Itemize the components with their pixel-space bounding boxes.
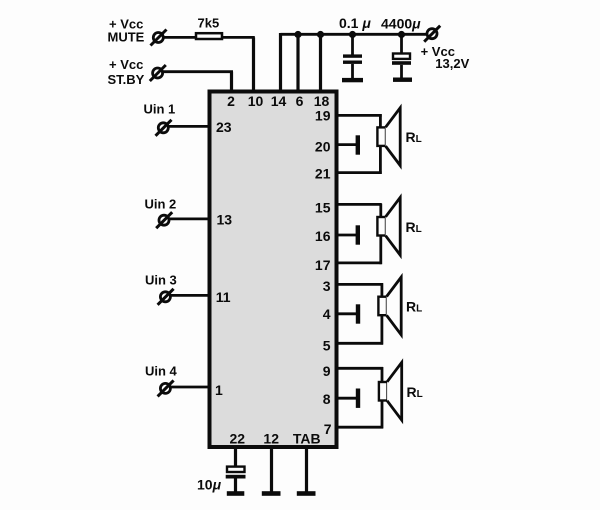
- svg-text:12: 12: [263, 430, 279, 446]
- node +Vcc ST.BY label: [108, 57, 145, 87]
- svg-text:23: 23: [216, 119, 232, 135]
- wire speaker bracket 4: [381, 367, 384, 429]
- wire pin 9: [335, 367, 383, 370]
- wire pin 20 stub: [335, 143, 356, 146]
- wire speaker bracket 2: [379, 204, 382, 265]
- svg-text:TAB: TAB: [293, 430, 321, 446]
- terminal Uin 1: [156, 120, 172, 136]
- wire ST.BY terminal to pin 2: [162, 72, 233, 92]
- svg-text:17: 17: [315, 257, 331, 273]
- svg-text:7: 7: [324, 421, 332, 437]
- speaker LS2: [377, 197, 400, 255]
- svg-text:3: 3: [323, 278, 331, 294]
- terminal bar pin 16: [356, 225, 360, 244]
- wire Uin 2 to pin 13: [169, 217, 210, 220]
- node +Vcc 13,2V label: [421, 44, 470, 71]
- wire pin 22 down: [234, 447, 237, 466]
- svg-text:Uin 4: Uin 4: [145, 363, 178, 378]
- junction dot C1: [349, 31, 356, 38]
- ground C2: [393, 78, 412, 82]
- svg-text:0.1 μ: 0.1 μ: [339, 15, 371, 31]
- terminal Uin 4: [158, 380, 174, 396]
- ground pin TAB: [297, 491, 316, 496]
- svg-text:MUTE: MUTE: [108, 30, 145, 45]
- svg-text:11: 11: [216, 289, 231, 305]
- capacitor C2 4400u electrolytic: [392, 35, 411, 79]
- wire pin 16 stub: [335, 234, 356, 237]
- svg-text:20: 20: [315, 138, 331, 154]
- wire pin 21: [335, 171, 382, 174]
- svg-text:2: 2: [227, 93, 235, 109]
- speaker LS1: [377, 108, 400, 166]
- svg-text:1: 1: [215, 382, 223, 398]
- speaker LS4: [379, 362, 402, 420]
- svg-text:4400μ: 4400μ: [381, 16, 421, 32]
- svg-text:ST.BY: ST.BY: [108, 72, 145, 87]
- wire MUTE terminal to R1: [163, 36, 196, 39]
- svg-text:Uin 2: Uin 2: [145, 197, 177, 212]
- svg-text:5: 5: [323, 338, 331, 354]
- svg-text:10: 10: [248, 93, 264, 109]
- IC U1 body: [210, 92, 337, 448]
- svg-text:8: 8: [323, 391, 331, 407]
- terminal bar pin 20: [356, 135, 360, 154]
- svg-text:13,2V: 13,2V: [435, 56, 469, 71]
- svg-text:4: 4: [323, 306, 331, 322]
- wire +Vcc supply bus: [281, 33, 429, 36]
- terminal +Vcc 13,2V: [424, 26, 440, 42]
- resistor R1 7k5: [196, 16, 222, 40]
- ground pin 22: [227, 491, 245, 496]
- terminal Uin 3: [158, 289, 174, 305]
- svg-text:7k5: 7k5: [198, 16, 220, 31]
- wire bus to pin 6: [296, 34, 299, 92]
- wire R1 to pin 10: [223, 37, 255, 92]
- wire pin 8 stub: [335, 397, 356, 400]
- wire pin 5: [335, 342, 383, 345]
- wire pin 12 down: [270, 447, 273, 492]
- svg-text:22: 22: [230, 430, 246, 446]
- wire pin 3: [335, 283, 383, 286]
- junction dot C2: [398, 31, 405, 38]
- terminal MUTE input: [151, 30, 167, 46]
- junction dot pin 18: [317, 31, 324, 38]
- ground C1: [342, 78, 363, 82]
- svg-text:21: 21: [315, 165, 331, 181]
- svg-text:9: 9: [323, 363, 331, 379]
- wire Uin 3 to pin 11: [170, 294, 210, 297]
- wire pin 4 stub: [335, 312, 356, 315]
- wire bus to pin 14: [279, 33, 282, 92]
- wire Uin 4 to pin 1: [170, 386, 210, 389]
- capacitor C3 10u electrolytic: [226, 467, 246, 492]
- svg-text:15: 15: [315, 200, 331, 216]
- wire pin 19: [335, 114, 382, 117]
- wire speaker bracket 3: [380, 283, 383, 345]
- capacitor C1 0.1u: [343, 35, 362, 79]
- ground pin 12: [262, 491, 281, 496]
- svg-text:14: 14: [271, 93, 287, 109]
- svg-text:Uin 3: Uin 3: [145, 273, 177, 288]
- wire pin 7: [335, 426, 383, 429]
- terminal ST.BY input: [150, 65, 166, 81]
- node +Vcc MUTE label: [108, 17, 145, 45]
- terminal Uin 2: [156, 212, 172, 228]
- svg-text:10μ: 10μ: [197, 477, 222, 493]
- speaker LS3: [378, 277, 401, 335]
- svg-text:6: 6: [296, 93, 304, 109]
- wire Uin 1 to pin 23: [168, 125, 210, 128]
- wire pin TAB down: [305, 447, 308, 492]
- terminal bar pin 8: [356, 389, 360, 408]
- svg-text:16: 16: [315, 228, 331, 244]
- svg-text:13: 13: [217, 211, 233, 227]
- wire bus to pin 18: [319, 34, 322, 92]
- svg-text:Uin 1: Uin 1: [144, 102, 176, 117]
- wire pin 17: [335, 261, 382, 264]
- wire pin 15: [335, 203, 382, 206]
- svg-text:19: 19: [315, 108, 331, 124]
- svg-text:+ Vcc: + Vcc: [109, 57, 143, 72]
- junction dot pin 6: [294, 31, 301, 38]
- terminal bar pin 4: [356, 304, 360, 323]
- wire speaker bracket 1: [379, 114, 382, 174]
